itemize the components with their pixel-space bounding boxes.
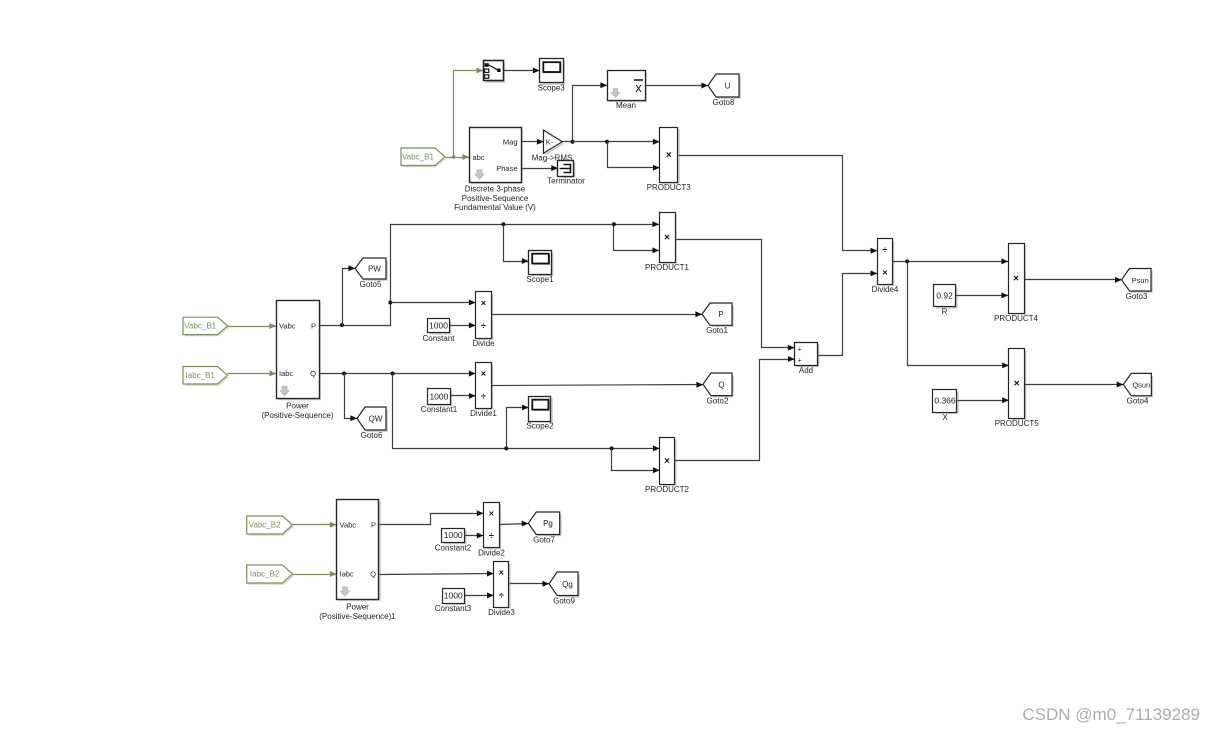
svg-text:÷: ÷ (882, 245, 887, 255)
from tag Vabc_B2 (247, 516, 294, 535)
svg-text:Mag: Mag (503, 137, 518, 146)
svg-text:PRODUCT1: PRODUCT1 (645, 263, 690, 272)
product PRODUCT3 (647, 128, 692, 193)
svg-text:×: × (882, 268, 887, 278)
wire: junction up to Mean (571, 82, 608, 143)
wire: PRODUCT5 out to Goto4 (1025, 382, 1124, 388)
subsystem Power (Positive-Sequence)1 (319, 500, 396, 621)
svg-text:×: × (481, 298, 486, 308)
svg-text:PRODUCT4: PRODUCT4 (994, 314, 1039, 323)
wire: branch down to Goto6 QW (345, 374, 358, 422)
wire: Vabc_B1 to Power Vabc (228, 323, 277, 329)
svg-text:Add: Add (799, 366, 813, 375)
svg-text:Divide: Divide (472, 339, 495, 348)
wire: Iabc_B2 to Power1 Iabc (293, 571, 337, 577)
wire: P out trunk up to product row (320, 221, 660, 327)
wire: PRODUCT3 out to Divide4 (679, 156, 878, 254)
svg-text:PW: PW (368, 265, 381, 274)
constant R (0.92) (934, 285, 957, 317)
goto Goto5 (PW) (355, 258, 387, 289)
svg-text:Positive-Sequence: Positive-Sequence (462, 194, 529, 203)
wire: Divide out to Goto1 (492, 311, 703, 317)
svg-text:Psun: Psun (1132, 276, 1149, 285)
svg-text:Goto3: Goto3 (1126, 292, 1148, 301)
svg-text:Iabc_B1: Iabc_B1 (186, 371, 216, 380)
svg-text:×: × (664, 233, 670, 244)
wire: Add out to Divide4 x input (818, 270, 878, 355)
svg-text:Vabc_B2: Vabc_B2 (249, 521, 281, 530)
svg-text:Goto9: Goto9 (553, 597, 575, 606)
svg-text:(Positive-Sequence)1: (Positive-Sequence)1 (319, 612, 396, 621)
wire: Q out trunk to Divide1 (320, 371, 476, 377)
wire: Phase to Terminator (522, 165, 558, 171)
multiport switch (484, 61, 505, 83)
wire: branch down to Scope1 (504, 225, 529, 265)
svg-text:Iabc: Iabc (340, 570, 354, 579)
wire: Constant to Divide (450, 322, 476, 328)
product PRODUCT4 (994, 244, 1039, 324)
wire: branch down to PRODUCT5 in1 (908, 262, 1009, 369)
svg-text:1000: 1000 (444, 530, 463, 540)
svg-text:(Positive-Sequence): (Positive-Sequence) (261, 411, 333, 420)
wire: Iabc_B1 to Power Iabc (228, 371, 277, 377)
svg-text:0.92: 0.92 (936, 291, 953, 301)
svg-text:Constant2: Constant2 (435, 544, 472, 553)
wire: switch to Scope3 (504, 68, 540, 74)
svg-text:QW: QW (369, 415, 383, 424)
svg-text:PRODUCT5: PRODUCT5 (995, 419, 1040, 428)
svg-text:+: + (798, 347, 802, 354)
svg-text:0.366: 0.366 (934, 396, 956, 406)
svg-text:×: × (664, 456, 670, 467)
svg-text:+: + (798, 358, 802, 365)
svg-text:Vabc: Vabc (340, 520, 357, 529)
svg-text:Terminator: Terminator (547, 177, 585, 186)
wire: Mag to gain (522, 139, 544, 145)
svg-text:Divide4: Divide4 (872, 285, 899, 294)
svg-text:Qg: Qg (562, 580, 573, 589)
product PRODUCT5 (995, 349, 1040, 429)
svg-text:Divide1: Divide1 (470, 409, 497, 418)
svg-text:Scope1: Scope1 (526, 275, 554, 284)
gain Mag->RMS (532, 130, 573, 162)
svg-text:Fundamental Value (V): Fundamental Value (V) (454, 203, 536, 212)
wire: Divide4 out to PRODUCT4 in1 (893, 258, 1009, 264)
svg-text:Divide2: Divide2 (478, 549, 505, 558)
wire: Divide2 out to Goto7 (500, 521, 529, 527)
from tag Iabc_B2 (247, 565, 294, 584)
svg-text:Goto1: Goto1 (706, 326, 728, 335)
svg-text:Scope3: Scope3 (538, 84, 566, 93)
wire: branch to Goto5 PW (343, 265, 356, 325)
svg-text:÷: ÷ (489, 531, 494, 541)
wire: Divide3 out to Goto9 (510, 581, 550, 587)
svg-text:Goto5: Goto5 (360, 280, 382, 289)
wire: branch to PRODUCT2 in2 (612, 449, 660, 474)
divide Divide (472, 292, 495, 349)
svg-text:P: P (371, 520, 376, 529)
svg-text:P: P (718, 310, 723, 319)
svg-text:Constant1: Constant1 (421, 405, 458, 414)
svg-text:abc: abc (473, 153, 485, 162)
wire: Power1 P to Divide2 (380, 510, 484, 524)
svg-text:Constant3: Constant3 (435, 604, 472, 613)
subsystem Discrete 3-phase Positive-Sequence Fundamental Value (V) (454, 128, 536, 213)
svg-text:Goto7: Goto7 (533, 536, 555, 545)
svg-text:1000: 1000 (444, 591, 463, 601)
svg-text:Q: Q (310, 369, 316, 378)
svg-text:1000: 1000 (429, 321, 448, 331)
svg-text:Phase: Phase (496, 164, 517, 173)
svg-text:Power: Power (346, 603, 369, 612)
product PRODUCT2 (645, 438, 690, 495)
constant Constant3 (1000) (435, 589, 472, 614)
goto Goto3 (Psun) (1122, 269, 1153, 302)
goto Goto9 (Qg) (549, 572, 579, 606)
from tag Iabc_B1 (183, 367, 229, 386)
svg-text:×: × (1014, 378, 1020, 389)
svg-text:Discrete 3-phase: Discrete 3-phase (465, 185, 526, 194)
svg-text:X: X (942, 413, 948, 422)
svg-text:K-: K- (546, 138, 554, 147)
svg-text:Vabc_B1: Vabc_B1 (184, 322, 216, 331)
svg-text:×: × (666, 150, 672, 161)
divide Divide2 (478, 503, 505, 558)
divide Divide1 (470, 363, 497, 419)
wire: Constant2 to Divide2 (465, 533, 484, 539)
wire: Power1 Q to Divide3 (380, 571, 494, 577)
svg-text:Goto6: Goto6 (361, 431, 383, 440)
constant Constant1 (1000) (421, 389, 458, 415)
divide Divide4 (872, 239, 899, 295)
wire: branch to PRODUCT1 in2 (614, 225, 660, 254)
svg-text:Divide3: Divide3 (488, 608, 515, 617)
from tag Vabc_B1 (mid) (183, 317, 229, 335)
goto Goto1 (P) (702, 303, 733, 335)
adder Add (795, 343, 819, 376)
constant Constant (1000) (422, 319, 455, 344)
wire: X to PRODUCT5 in2 (958, 397, 1009, 403)
svg-text:Power: Power (286, 402, 309, 411)
wire: branch to PRODUCT3 in2 (608, 142, 660, 171)
subsystem Mean (608, 71, 647, 111)
wire: gain out to PRODUCT3 in1 (563, 139, 660, 145)
svg-text:Pg: Pg (543, 519, 553, 528)
svg-text:×: × (499, 567, 504, 577)
svg-text:Goto8: Goto8 (713, 98, 735, 107)
wire: R to PRODUCT4 in2 (956, 292, 1009, 298)
svg-text:P: P (311, 322, 316, 331)
constant X (0.366) (933, 390, 959, 423)
terminator Terminator (547, 161, 585, 186)
svg-text:x: x (635, 81, 642, 95)
wire: Q branch down to PRODUCT2 (393, 374, 660, 452)
wire: green branch up to switch (454, 68, 484, 158)
svg-text:×: × (489, 508, 494, 518)
svg-text:Qsun: Qsun (1132, 381, 1150, 390)
svg-text:×: × (481, 369, 486, 379)
goto Goto8 (U) (708, 74, 740, 107)
wire: Mean to Goto8 (646, 83, 709, 89)
svg-text:Constant: Constant (422, 334, 455, 343)
product PRODUCT1 (645, 213, 690, 273)
svg-text:CSDN @m0_71139289: CSDN @m0_71139289 (1022, 705, 1200, 724)
divide Divide3 (488, 562, 515, 618)
svg-text:Goto2: Goto2 (707, 397, 729, 406)
goto Goto6 (QW) (357, 407, 387, 440)
scope Scope2 (526, 397, 554, 431)
svg-text:Mean: Mean (616, 101, 636, 110)
wire: branch to Divide x input (391, 300, 476, 306)
svg-text:÷: ÷ (499, 590, 504, 600)
svg-text:Scope2: Scope2 (526, 422, 554, 431)
svg-text:Q: Q (718, 380, 724, 389)
wire: PRODUCT2 out to Add in2 (675, 356, 795, 461)
svg-text:U: U (725, 82, 731, 91)
watermark CSDN (1022, 705, 1200, 724)
svg-text:PRODUCT3: PRODUCT3 (647, 183, 692, 192)
svg-text:Goto4: Goto4 (1127, 397, 1149, 406)
svg-text:Vabc: Vabc (279, 322, 296, 331)
svg-text:Iabc_B2: Iabc_B2 (250, 570, 280, 579)
goto Goto4 (Qsun) (1123, 373, 1152, 405)
svg-text:×: × (1013, 273, 1019, 284)
wire: PRODUCT4 out to Goto3 (1025, 277, 1122, 283)
wire: Divide1 out to Goto2 (492, 382, 704, 388)
wire: PRODUCT1 out to Add in1 (676, 240, 795, 351)
svg-text:Iabc: Iabc (279, 369, 293, 378)
svg-text:1000: 1000 (429, 392, 448, 402)
wire: Vabc_B1 to abc input (green) (446, 154, 470, 160)
wire: Vabc_B2 to Power1 Vabc (293, 522, 337, 528)
goto Goto7 (Pg) (528, 512, 560, 545)
wire: Constant3 to Divide3 (465, 592, 494, 598)
svg-text:÷: ÷ (481, 392, 486, 402)
svg-text:R: R (942, 308, 948, 317)
svg-text:PRODUCT2: PRODUCT2 (645, 485, 690, 494)
from tag Vabc_B1 (top) (401, 148, 446, 167)
wire: branch up to Scope2 (507, 405, 529, 449)
svg-text:÷: ÷ (481, 321, 486, 331)
wire: Constant1 to Divide1 (451, 393, 476, 399)
constant Constant2 (1000) (435, 529, 472, 553)
svg-text:Vabc_B1: Vabc_B1 (402, 152, 434, 161)
subsystem Power (Positive-Sequence) (261, 301, 333, 420)
svg-text:Q: Q (370, 570, 376, 579)
scope Scope1 (526, 251, 554, 285)
goto Goto2 (Q) (703, 373, 733, 406)
scope Scope3 (538, 59, 566, 93)
